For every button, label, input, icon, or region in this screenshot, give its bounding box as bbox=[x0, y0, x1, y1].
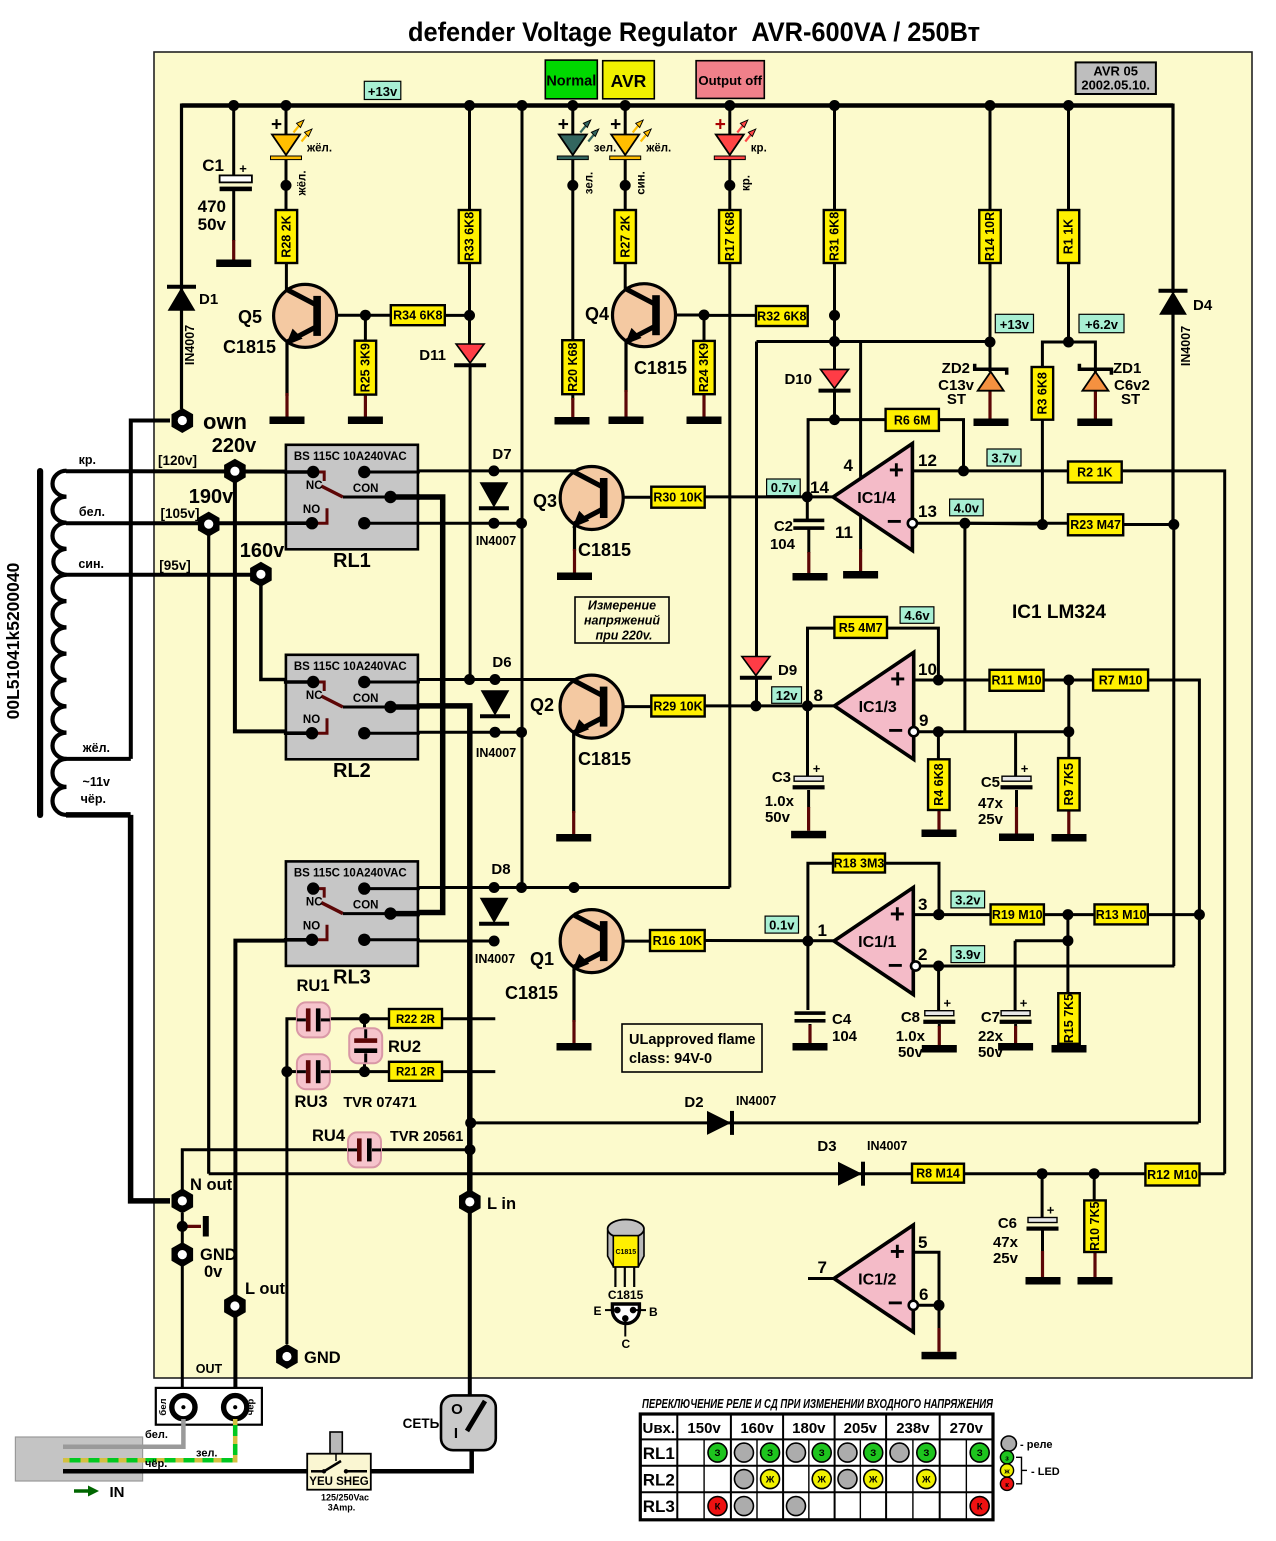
ground C1 bbox=[216, 260, 251, 268]
wire R18 feedback row bbox=[808, 863, 834, 941]
ground R4 bbox=[922, 830, 957, 838]
svg-text:3Amp.: 3Amp. bbox=[328, 1503, 356, 1513]
svg-text:R20 K68: R20 K68 bbox=[566, 342, 580, 391]
svg-text:50v: 50v bbox=[898, 1044, 924, 1061]
resistor R28 2K bbox=[276, 210, 298, 263]
svg-text:10: 10 bbox=[918, 660, 937, 679]
voltage label 3.2v bbox=[951, 891, 985, 908]
svg-text:470: 470 bbox=[198, 197, 226, 216]
svg-text:К: К bbox=[977, 1502, 983, 1513]
table RL2 leds bbox=[734, 1470, 753, 1489]
svg-text:R10 7K5: R10 7K5 bbox=[1088, 1201, 1102, 1250]
svg-text:+13v: +13v bbox=[1000, 317, 1030, 332]
svg-text:205v: 205v bbox=[844, 1420, 878, 1437]
wire transformer tap чёр to N out bbox=[66, 812, 131, 818]
svg-text:1.0x: 1.0x bbox=[896, 1028, 926, 1045]
svg-text:125/250Vac: 125/250Vac bbox=[321, 1493, 369, 1503]
diode D9 red bbox=[742, 657, 770, 676]
svg-text:напряжений: напряжений bbox=[584, 614, 660, 628]
node L out bbox=[224, 1294, 246, 1319]
wire D2 row bbox=[471, 1121, 1199, 1124]
wire IC1-4 supply column bbox=[859, 342, 862, 553]
transistor Q2 C1815 bbox=[560, 675, 623, 738]
svg-text:defender Voltage Regulator AV: defender Voltage Regulator AVR-600VA / 2… bbox=[408, 17, 980, 47]
svg-text:З: З bbox=[715, 1448, 721, 1459]
svg-text:RL3: RL3 bbox=[333, 966, 371, 988]
svg-text:Q2: Q2 bbox=[530, 695, 554, 715]
svg-text:N out: N out bbox=[190, 1176, 233, 1194]
resistor R34 6K8 bbox=[391, 305, 445, 325]
wire 220v column to RL2 NO bbox=[235, 480, 313, 731]
svg-text:зел.: зел. bbox=[583, 172, 595, 194]
diode D2 IN4007 bbox=[707, 1111, 731, 1135]
wire IC1-2 pin6 out bbox=[918, 1304, 939, 1307]
input cable sheath bbox=[15, 1437, 142, 1481]
wire R33 column bbox=[468, 106, 471, 212]
svg-text:7: 7 bbox=[818, 1258, 827, 1277]
svg-text:TVR 20561: TVR 20561 bbox=[390, 1129, 463, 1145]
ground C4 bbox=[793, 1043, 828, 1051]
svg-text:C2: C2 bbox=[774, 518, 793, 535]
wire RU1 to R22 bbox=[330, 1017, 389, 1020]
wire +13v distribution row bbox=[757, 340, 991, 343]
svg-text:кр.: кр. bbox=[740, 175, 752, 191]
wire R1 to +6.2v node bbox=[1067, 260, 1070, 343]
svg-text:R11 M10: R11 M10 bbox=[992, 674, 1042, 688]
svg-text:син.: син. bbox=[78, 557, 104, 571]
IN arrow bbox=[74, 1489, 88, 1493]
varistor RU4 bbox=[348, 1132, 381, 1167]
ground Q4 emitter bbox=[609, 417, 644, 425]
svg-text:+: + bbox=[889, 454, 904, 484]
wire L in to switch bbox=[468, 1213, 472, 1447]
transistor Q3 C1815 bbox=[560, 467, 623, 530]
svg-text:160v: 160v bbox=[740, 1420, 774, 1437]
wire D10 to R6 row bbox=[833, 389, 836, 420]
svg-text:9: 9 bbox=[919, 711, 928, 730]
wire RL1 CON chain to RL3 CON bbox=[392, 497, 443, 913]
wire +6.2v to ZD1 bbox=[1069, 342, 1096, 372]
svg-text:E: E bbox=[593, 1304, 601, 1318]
wire RL3 NO row to D8 bbox=[418, 940, 494, 943]
resistor R31 6K8 bbox=[824, 210, 846, 263]
svg-text:180v: 180v bbox=[792, 1420, 826, 1437]
op-amp IC1/3 bbox=[834, 652, 913, 759]
op-amp IC1/4 bbox=[833, 444, 912, 551]
wire C2 column bbox=[806, 497, 809, 519]
svg-text:50v: 50v bbox=[765, 809, 791, 826]
note Измерение напряжений при 220v bbox=[575, 597, 669, 643]
resistor R14 10R bbox=[979, 210, 1001, 263]
resistor R3 6K8 bbox=[1032, 367, 1054, 420]
svg-text:C1815: C1815 bbox=[615, 1249, 636, 1256]
ground C2 bbox=[793, 573, 828, 581]
svg-text:−: − bbox=[887, 506, 902, 536]
wire C6 column bbox=[1041, 1174, 1044, 1218]
wire R19 R13 row bbox=[1044, 913, 1095, 916]
svg-text:R12 M10: R12 M10 bbox=[1147, 1168, 1198, 1182]
voltage label 3.9v bbox=[951, 946, 985, 963]
relay RL3 BS115C bbox=[286, 861, 418, 966]
svg-text:R25 3K9: R25 3K9 bbox=[359, 343, 373, 392]
wire R23 row right bbox=[1123, 523, 1174, 526]
wire R31 to R32 junction bbox=[833, 260, 836, 317]
wire R20 LED column bbox=[571, 106, 574, 135]
wire pin8 row bbox=[705, 704, 835, 707]
wire R12 right bbox=[1199, 1172, 1225, 1175]
svg-text:кр.: кр. bbox=[79, 453, 96, 467]
svg-text:IN4007: IN4007 bbox=[1179, 326, 1193, 366]
svg-text:CON: CON bbox=[353, 899, 379, 911]
svg-text:C1: C1 bbox=[202, 156, 224, 175]
svg-text:чёр.: чёр. bbox=[81, 792, 106, 806]
svg-text:IN4007: IN4007 bbox=[475, 952, 515, 966]
wire R28 to Q5 collector bbox=[285, 262, 288, 291]
wire pin9 node to R9 bbox=[1067, 732, 1070, 759]
wire C3 column bbox=[806, 706, 809, 776]
svg-text:R24 3K9: R24 3K9 bbox=[697, 343, 711, 392]
svg-text:ST: ST bbox=[1121, 391, 1140, 408]
wire pin3 row bbox=[914, 913, 991, 916]
wire IC1-2 pin7 stub bbox=[808, 1277, 834, 1280]
wire R1 column bbox=[1067, 106, 1070, 212]
node dots misc bbox=[360, 310, 371, 321]
svg-text:D7: D7 bbox=[492, 446, 511, 463]
svg-text:10A240VAC: 10A240VAC bbox=[343, 661, 407, 673]
ground C5 bbox=[999, 834, 1034, 842]
wire Q1 collector bend bbox=[573, 888, 576, 890]
svg-text:22x: 22x bbox=[978, 1028, 1004, 1045]
svg-text:IC1/3: IC1/3 bbox=[859, 699, 897, 716]
voltage label 12v bbox=[772, 687, 802, 704]
wire RU2 taps bbox=[363, 1019, 366, 1030]
svg-text:D10: D10 bbox=[784, 371, 812, 388]
svg-text:- реле: - реле bbox=[1020, 1439, 1053, 1451]
varistor RU1 bbox=[297, 1002, 330, 1037]
wire R14 column bbox=[989, 106, 992, 212]
svg-text:D9: D9 bbox=[778, 662, 797, 679]
svg-text:+: + bbox=[890, 1236, 905, 1266]
svg-text:NC: NC bbox=[306, 480, 323, 492]
svg-text:+: + bbox=[1021, 761, 1029, 776]
svg-text:R29 10K: R29 10K bbox=[653, 699, 702, 713]
C1815 package leads bbox=[614, 1268, 616, 1288]
LED yellow AVR bbox=[611, 135, 639, 156]
svg-text:OUT: OUT bbox=[196, 1362, 223, 1376]
svg-text:Ж: Ж bbox=[816, 1475, 826, 1486]
svg-text:12: 12 bbox=[918, 451, 937, 470]
op-amp IC1/2 bbox=[834, 1225, 913, 1332]
svg-text:CON: CON bbox=[353, 693, 379, 705]
wire RL3 NO to L out column bbox=[235, 941, 313, 1306]
svg-text:+: + bbox=[239, 161, 247, 176]
svg-text:25v: 25v bbox=[993, 1250, 1019, 1267]
wire pin13 to pin9 column bbox=[963, 523, 966, 731]
diode D10 red bbox=[821, 369, 849, 388]
ground R20 bbox=[555, 417, 590, 425]
svg-text:C: C bbox=[621, 1337, 630, 1351]
YEU SHEG fuse box bbox=[307, 1454, 371, 1490]
wire C4 column bbox=[806, 941, 809, 1010]
svg-text:Ж: Ж bbox=[921, 1475, 931, 1486]
resistor R24 3K9 bbox=[693, 341, 715, 394]
svg-text:0.1v: 0.1v bbox=[769, 918, 795, 933]
transistor Q5 C1815 bbox=[274, 284, 337, 347]
status box Output off bbox=[696, 61, 764, 99]
wire R2 to right edge bbox=[1122, 471, 1225, 1174]
capacitor C4 bbox=[795, 1011, 826, 1015]
svg-text:R34 6K8: R34 6K8 bbox=[393, 309, 442, 323]
wire fuse to switch bbox=[371, 1448, 472, 1471]
svg-text:238v: 238v bbox=[896, 1420, 930, 1437]
status box Normal bbox=[545, 60, 597, 99]
svg-text:+13v: +13v bbox=[368, 84, 398, 99]
wire RU3 row bbox=[287, 1070, 297, 1073]
svg-text:К: К bbox=[715, 1502, 721, 1513]
wire RL1 NC feed 220v bbox=[66, 469, 313, 473]
svg-text:RL1: RL1 bbox=[333, 550, 371, 572]
svg-text:зел.: зел. bbox=[594, 143, 616, 155]
svg-text:[105v]: [105v] bbox=[160, 506, 199, 521]
svg-text:+: + bbox=[890, 898, 905, 928]
relay RL2 BS115C bbox=[286, 655, 418, 760]
svg-text:IN4007: IN4007 bbox=[736, 1094, 776, 1108]
resistor R27 2K bbox=[614, 210, 636, 263]
svg-text:R16 10K: R16 10K bbox=[653, 934, 702, 948]
svg-text:к: к bbox=[1005, 1480, 1009, 1489]
ground R10 bbox=[1078, 1277, 1113, 1285]
resistor R33 6K8 bbox=[459, 210, 481, 263]
resistor R2 1K bbox=[1068, 462, 1122, 483]
wire R5 to pin10 bbox=[887, 628, 939, 680]
C1815 package TO-92 bbox=[608, 1231, 644, 1267]
wire R32 to D10 bbox=[833, 315, 836, 370]
wire Q3 collector feed row bbox=[418, 469, 576, 472]
svg-text:2: 2 bbox=[918, 945, 927, 964]
svg-text:NC: NC bbox=[306, 896, 323, 908]
wire pin13 row left seg bbox=[965, 522, 1043, 526]
table RL3 leds bbox=[708, 1497, 727, 1516]
chassis bar bbox=[203, 1216, 209, 1237]
ground Q5 emitter bbox=[270, 417, 305, 425]
wire C8 column bbox=[937, 966, 940, 1011]
svg-text:5: 5 bbox=[918, 1233, 927, 1252]
svg-text:+: + bbox=[890, 663, 905, 693]
svg-text:150v: 150v bbox=[687, 1420, 721, 1437]
svg-text:+: + bbox=[271, 115, 282, 136]
svg-text:BS 115C: BS 115C bbox=[294, 867, 340, 879]
svg-text:2002.05.10.: 2002.05.10. bbox=[1081, 78, 1150, 93]
svg-text:З: З bbox=[977, 1448, 983, 1459]
LED green Normal bbox=[559, 135, 587, 156]
wire pin9 row bbox=[912, 730, 1069, 733]
svg-text:14: 14 bbox=[810, 478, 829, 497]
svg-text:R14 10R: R14 10R bbox=[983, 212, 997, 261]
svg-text:L out: L out bbox=[245, 1280, 286, 1298]
wire RL2 NO row to D6 bbox=[418, 731, 522, 734]
svg-text:Q1: Q1 bbox=[530, 949, 554, 969]
status box AVR bbox=[603, 61, 655, 99]
svg-text:IC1/1: IC1/1 bbox=[858, 934, 896, 951]
ground R9 bbox=[1052, 834, 1087, 842]
zener ZD1 C6v2 bbox=[1082, 372, 1108, 391]
svg-text:50v: 50v bbox=[978, 1044, 1004, 1061]
wire pin13 output row bbox=[916, 522, 1068, 525]
zener ZD2 C13v bbox=[978, 372, 1004, 391]
wire transformer tap жёл to own bbox=[66, 757, 131, 761]
wire transformer tap син to 160v bbox=[66, 573, 261, 577]
resistor R16 10K bbox=[650, 930, 705, 951]
voltage label +6.2v bbox=[1079, 314, 1124, 332]
resistor R19 M10 bbox=[991, 904, 1044, 924]
svg-text:104: 104 bbox=[770, 536, 796, 553]
transformer winding bbox=[52, 471, 66, 815]
ground Q2 emitter bbox=[556, 834, 591, 842]
svg-text:8: 8 bbox=[814, 686, 823, 705]
wire D1 own column bbox=[180, 104, 183, 410]
svg-text:GND: GND bbox=[304, 1349, 341, 1367]
svg-text:4.0v: 4.0v bbox=[954, 500, 980, 515]
wire pin2 row bbox=[918, 965, 1174, 968]
svg-text:З: З bbox=[923, 1448, 929, 1459]
resistor R4 6K8 bbox=[928, 759, 950, 810]
resistor R15 7K5 bbox=[1058, 993, 1080, 1044]
svg-text:RL1: RL1 bbox=[643, 1444, 675, 1463]
node GND 0v bbox=[172, 1242, 194, 1267]
wire 190v column to D3 row bbox=[207, 533, 210, 1174]
svg-text:R15 7K5: R15 7K5 bbox=[1062, 994, 1076, 1043]
resistor R20 K68 bbox=[562, 340, 584, 394]
wire R21 stub bbox=[442, 1070, 495, 1073]
svg-text:1.0x: 1.0x bbox=[765, 793, 795, 810]
svg-text:C4: C4 bbox=[832, 1011, 852, 1028]
wire R31 column bbox=[833, 106, 836, 212]
svg-text:- LED: - LED bbox=[1031, 1466, 1060, 1478]
wire Q4 base row bbox=[657, 314, 704, 317]
svg-text:+: + bbox=[558, 115, 569, 136]
svg-text:[95v]: [95v] bbox=[159, 558, 191, 573]
rail junction dots bbox=[228, 100, 239, 111]
svg-text:ST: ST bbox=[947, 391, 966, 408]
svg-text:BS 115C: BS 115C bbox=[294, 451, 340, 463]
svg-text:RL2: RL2 bbox=[333, 760, 371, 782]
svg-text:C1815: C1815 bbox=[634, 358, 687, 378]
svg-text:L in: L in bbox=[487, 1195, 516, 1213]
svg-text:R32 6K8: R32 6K8 bbox=[757, 309, 806, 323]
OUT connector box bbox=[156, 1388, 262, 1425]
svg-text:270v: 270v bbox=[950, 1420, 984, 1437]
resistor R9 7K5 bbox=[1058, 758, 1080, 810]
svg-text:IC1/2: IC1/2 bbox=[858, 1272, 896, 1289]
svg-text:D2: D2 bbox=[684, 1094, 703, 1111]
diode D4 IN4007 bbox=[1161, 293, 1186, 314]
svg-text:RU4: RU4 bbox=[312, 1127, 346, 1145]
wire Q5 base row bbox=[318, 314, 391, 317]
svg-text:C1815: C1815 bbox=[505, 983, 558, 1003]
svg-text:ULapproved flame: ULapproved flame bbox=[629, 1032, 756, 1048]
svg-text:+: + bbox=[813, 761, 821, 776]
wire cable white bbox=[63, 1419, 183, 1447]
svg-text:47x: 47x bbox=[978, 795, 1004, 812]
svg-text:104: 104 bbox=[832, 1028, 858, 1045]
svg-text:C3: C3 bbox=[772, 769, 791, 786]
svg-text:Output off: Output off bbox=[698, 73, 762, 88]
diode D8 IN4007 bbox=[481, 899, 507, 922]
svg-text:Ж: Ж bbox=[868, 1475, 878, 1486]
wire RL2 D6 row bbox=[418, 678, 577, 681]
wire cable green-yellow bbox=[63, 1419, 235, 1460]
wire Q3 emitter to ground bbox=[573, 524, 576, 552]
svg-text:R17 K68: R17 K68 bbox=[723, 212, 737, 261]
svg-text:RL3: RL3 bbox=[643, 1497, 675, 1516]
svg-text:RU1: RU1 bbox=[296, 977, 329, 995]
svg-text:з: з bbox=[1005, 1453, 1009, 1462]
ground IC1-4 pin11 bbox=[843, 571, 878, 579]
ground R25 bbox=[348, 417, 383, 425]
wire ZD1 to ground bbox=[1094, 391, 1097, 419]
svg-text:+: + bbox=[610, 115, 621, 136]
svg-text:AVR: AVR bbox=[611, 71, 647, 91]
svg-text:4: 4 bbox=[844, 456, 854, 475]
revision box AVR 05 bbox=[1076, 62, 1156, 94]
wire +6.2v to R3 bbox=[1042, 342, 1068, 367]
wire pin1 row bbox=[705, 939, 834, 942]
table RL1 leds bbox=[708, 1443, 727, 1462]
svg-text:З: З bbox=[819, 1448, 825, 1459]
svg-text:R30 10K: R30 10K bbox=[653, 491, 702, 505]
OUT terminal бел bbox=[172, 1396, 195, 1419]
wire pin10 row bbox=[912, 679, 990, 682]
wire Q2 emitter to ground bbox=[572, 733, 575, 813]
svg-text:+: + bbox=[944, 996, 952, 1011]
wire pin12 output row bbox=[912, 469, 1068, 472]
svg-text:жёл.: жёл. bbox=[82, 741, 110, 755]
wire IC1-2 to ground bbox=[938, 1305, 941, 1330]
svg-text:R13 M10: R13 M10 bbox=[1096, 908, 1147, 922]
svg-text:Измерение: Измерение bbox=[588, 599, 656, 613]
transistor Q1 C1815 bbox=[560, 910, 623, 973]
wire R20 to ground bbox=[571, 394, 574, 401]
wire RL1 NO feed 190v bbox=[66, 521, 313, 525]
svg-text:R9 7K5: R9 7K5 bbox=[1062, 763, 1076, 805]
svg-text:I: I bbox=[454, 1425, 458, 1442]
capacitor C8 bbox=[925, 1011, 954, 1016]
varistor RU2 bbox=[349, 1028, 382, 1063]
svg-text:R31 6K8: R31 6K8 bbox=[828, 212, 842, 261]
voltage label 4.0v bbox=[950, 499, 984, 516]
wire N out to GND node bbox=[181, 1213, 184, 1243]
resistor R6 6M bbox=[886, 409, 939, 431]
transformer core 00L51041k5200040 bbox=[37, 468, 43, 818]
ground R24 bbox=[687, 417, 722, 425]
resistor R21 2R bbox=[389, 1062, 442, 1081]
svg-text:YEU SHEG: YEU SHEG bbox=[309, 1476, 368, 1488]
svg-text:IC1/4: IC1/4 bbox=[857, 490, 895, 507]
LED cathode dots bbox=[281, 180, 292, 191]
wire GND2 column bbox=[285, 1072, 288, 1344]
svg-text:СЕТЬ: СЕТЬ bbox=[403, 1416, 440, 1431]
OUT terminal чёр bbox=[224, 1396, 247, 1419]
svg-text:190v: 190v bbox=[189, 486, 234, 508]
svg-text:BS 115C: BS 115C bbox=[294, 661, 340, 673]
svg-text:Normal: Normal bbox=[546, 74, 596, 90]
svg-text:IN: IN bbox=[110, 1484, 125, 1501]
wire R25 to junction bbox=[364, 315, 367, 341]
node 220v bbox=[224, 459, 246, 484]
node GND bottom bbox=[276, 1344, 298, 1369]
svg-text:NO: NO bbox=[303, 504, 320, 516]
svg-text:IC1 LM324: IC1 LM324 bbox=[1012, 602, 1106, 623]
